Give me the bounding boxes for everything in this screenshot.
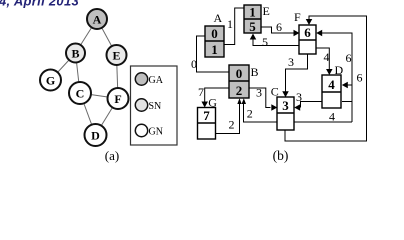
box A cells 0/1 <box>205 26 224 57</box>
svg-text:3: 3 <box>288 55 294 69</box>
wire loop C to F weight 6 <box>285 16 367 141</box>
svg-text:6: 6 <box>357 71 363 85</box>
svg-text:2: 2 <box>229 118 235 132</box>
node F <box>108 88 129 109</box>
svg-text:6: 6 <box>346 51 352 65</box>
wire F to E weight 5 <box>253 36 299 46</box>
svg-text:6: 6 <box>304 25 311 40</box>
svg-text:C: C <box>271 85 279 99</box>
svg-text:4, April 2013: 4, April 2013 <box>0 0 79 9</box>
edge E-F <box>117 55 119 99</box>
svg-text:1: 1 <box>211 42 218 57</box>
node B <box>66 44 85 63</box>
wire bus branch into D right <box>345 84 353 86</box>
node C <box>69 82 91 104</box>
wire G to B weight 2 <box>216 101 240 134</box>
svg-text:GA: GA <box>149 75 164 86</box>
box C cells 3/_ <box>277 97 294 130</box>
svg-text:F: F <box>114 92 121 106</box>
wire bus D to F weight 6 <box>319 33 352 122</box>
edge B-G <box>51 53 76 80</box>
svg-text:2: 2 <box>236 83 243 98</box>
svg-text:E: E <box>263 4 270 18</box>
legend GN circle <box>135 124 163 137</box>
svg-text:B: B <box>71 47 79 61</box>
edge C-D <box>80 93 96 135</box>
box D cells 4/_ <box>322 75 341 108</box>
svg-text:G: G <box>46 74 55 88</box>
box E cells 1/5 <box>244 5 261 35</box>
svg-text:5: 5 <box>249 19 256 34</box>
svg-text:A: A <box>214 11 223 25</box>
svg-text:3: 3 <box>282 98 289 113</box>
svg-text:0: 0 <box>191 57 197 71</box>
legend box <box>131 66 178 145</box>
legend SN circle <box>135 99 161 112</box>
svg-text:6: 6 <box>276 20 282 34</box>
svg-text:3: 3 <box>296 90 302 104</box>
svg-text:GN: GN <box>149 127 163 138</box>
svg-text:A: A <box>93 13 102 27</box>
svg-text:F: F <box>294 10 301 24</box>
edge A-B <box>76 19 98 53</box>
svg-text:B: B <box>251 65 259 79</box>
box G cells 7/_ <box>198 108 216 140</box>
svg-text:D: D <box>91 129 100 143</box>
svg-text:4: 4 <box>328 77 335 92</box>
edge D-F <box>96 99 119 136</box>
wire B to G weight 7 <box>205 88 229 104</box>
svg-text:3: 3 <box>256 86 262 100</box>
wire A to B weight 0 <box>197 36 230 72</box>
edge A-E <box>97 19 117 55</box>
svg-text:C: C <box>76 87 85 101</box>
svg-text:1: 1 <box>227 17 233 31</box>
svg-text:1: 1 <box>249 5 256 20</box>
node D <box>85 124 107 146</box>
node G <box>40 70 61 91</box>
box F cells 6/_ <box>299 25 316 54</box>
svg-text:G: G <box>208 96 217 110</box>
svg-text:7: 7 <box>198 85 204 99</box>
wire B to C weight 3 <box>249 88 271 108</box>
wire E to F weight 6 <box>261 27 297 33</box>
node E <box>107 45 127 65</box>
svg-text:0: 0 <box>236 66 243 81</box>
svg-text:0: 0 <box>211 26 218 41</box>
wire A to E weight 1 <box>224 8 244 45</box>
svg-text:D: D <box>335 63 344 77</box>
legend GA circle <box>135 73 163 86</box>
wire D to C weight 3 <box>301 102 323 108</box>
wire C to B weight 2 <box>244 101 278 122</box>
svg-text:4: 4 <box>329 110 335 124</box>
svg-text:7: 7 <box>203 108 210 123</box>
wire C to D weight 4 <box>294 121 352 123</box>
svg-text:(b): (b) <box>273 148 289 163</box>
box B cells 0/2 <box>229 65 249 98</box>
edge C-F <box>80 93 118 99</box>
svg-text:4: 4 <box>324 50 330 64</box>
node A <box>87 9 107 29</box>
wire F to C weight 3 <box>286 54 308 94</box>
svg-text:(a): (a) <box>105 148 119 163</box>
wire F to D weight 4 <box>316 48 329 72</box>
svg-text:SN: SN <box>149 101 162 112</box>
svg-text:2: 2 <box>247 107 253 121</box>
edge B-C <box>76 53 81 93</box>
svg-text:5: 5 <box>262 35 268 49</box>
svg-text:E: E <box>112 49 120 63</box>
